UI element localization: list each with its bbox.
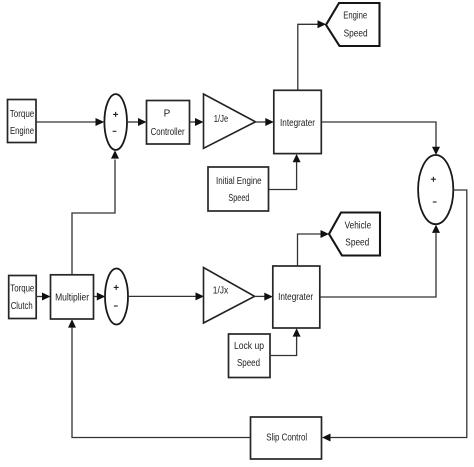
sum S2 (vehicle summing junction) (105, 269, 128, 325)
wire from sum S3 to Slip Control (322, 190, 467, 442)
svg-text:Torque: Torque (10, 109, 35, 120)
svg-text:Speed: Speed (345, 238, 369, 249)
wire from Lock up Speed to Integrater (vehicle) bottom (270, 328, 301, 355)
svg-text:Speed: Speed (228, 193, 249, 204)
block Initial Engine Speed (208, 167, 269, 211)
svg-text:Speed: Speed (344, 28, 368, 39)
svg-text:Engine: Engine (10, 126, 34, 137)
svg-text:Lock up: Lock up (234, 341, 264, 352)
wire from sum S1 to P Controller (127, 118, 147, 126)
tag Vehicle Speed (329, 213, 380, 256)
svg-text:Engine: Engine (343, 11, 367, 22)
svg-text:Clutch: Clutch (11, 301, 33, 312)
svg-text:Slip Control: Slip Control (266, 432, 307, 443)
svg-text:Integrater: Integrater (280, 118, 316, 129)
wire from Multiplier to sum S2 (94, 293, 106, 301)
svg-text:1/Jx: 1/Jx (213, 286, 229, 297)
block Torque Engine (8, 100, 37, 143)
wire from Multiplier top to sum S1 bottom (feedback) (72, 150, 119, 274)
wire from Torque Engine to sum S1 (36, 118, 104, 126)
block Slip Control (251, 417, 322, 459)
gain 1/Jx (204, 268, 255, 324)
wire from Torque Clutch to Multiplier (36, 293, 50, 301)
wire from sum S2 to gain 1/Jx (128, 292, 204, 300)
svg-text:Controller: Controller (151, 127, 186, 138)
svg-text:1/Je: 1/Je (214, 114, 229, 125)
svg-text:Torque: Torque (10, 283, 34, 294)
gain 1/Je (204, 94, 256, 148)
wire from Integrater (engine) to sum S3 top (321, 122, 440, 155)
wire from Slip Control to Multiplier bottom (feedback) (68, 319, 251, 437)
block P Controller (147, 101, 190, 145)
sum S1 (engine torque summing junction) (104, 94, 127, 150)
svg-text:Initial Engine: Initial Engine (216, 176, 262, 187)
svg-text:Vehicle: Vehicle (345, 220, 372, 231)
wire from Integrater (engine) to Engine Speed tag (298, 20, 326, 90)
block Lock up Speed (229, 334, 271, 378)
wire from P Controller to gain 1/Je (190, 118, 204, 126)
block Multiplier (51, 275, 94, 319)
wire from Integrater (vehicle) to Vehicle Speed tag (298, 230, 330, 266)
block Integrater (engine) (274, 90, 322, 153)
wire from gain 1/Jx to Integrater (vehicle) (255, 293, 273, 301)
svg-text:Integrater: Integrater (278, 292, 314, 303)
tag Engine Speed (326, 3, 380, 46)
block Torque Clutch (9, 276, 37, 319)
block Integrater (vehicle) (273, 266, 320, 328)
wire from Integrater (vehicle) to sum S3 bottom (320, 225, 440, 297)
svg-text:Speed: Speed (237, 358, 260, 369)
sum S3 (slip summing junction) (418, 155, 453, 224)
wire from Initial Engine Speed to Integrater (engine) bottom (269, 154, 301, 190)
svg-text:Multiplier: Multiplier (55, 293, 90, 304)
svg-text:P: P (164, 109, 171, 120)
wire from gain 1/Je to Integrater (engine) (256, 118, 274, 126)
